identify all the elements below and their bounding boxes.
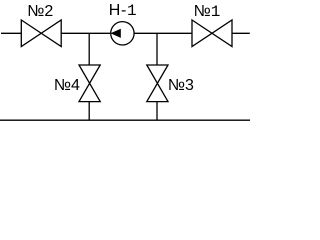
- node A: T-junction, wire: vertical drop from main line to valve №4: [88, 33, 90, 65]
- svg-text:№1: №1: [194, 3, 221, 21]
- node B: T-junction, wire: vertical drop from main line to valve №3: [156, 33, 158, 65]
- valve №4 (gate valve, vertical hourglass symbol): [79, 65, 100, 102]
- wire: top main line between pump H-1 and valve №1: [135, 32, 193, 34]
- wire: right outlet stub of top main line: [232, 32, 250, 34]
- wire: bottom return line (full width): [0, 119, 250, 121]
- valve №1 (gate valve, horizontal bowtie symbol): [192, 20, 232, 47]
- wire: top main line between valve №2 and pump H-1: [61, 32, 110, 34]
- valve №3 (gate valve, vertical hourglass symbol): [147, 65, 168, 102]
- valve №2 (gate valve, horizontal bowtie symbol): [21, 20, 61, 47]
- svg-text:№2: №2: [27, 3, 53, 20]
- pump H-1 flow-direction triangle (filled, pointing left): [111, 29, 121, 38]
- wire: vertical segment from valve №4 to bottom return line: [88, 102, 90, 121]
- wire: left inlet stub of top main line: [1, 32, 21, 34]
- svg-text:№4: №4: [54, 77, 80, 94]
- wire: vertical segment from valve №3 to bottom return line: [156, 102, 158, 121]
- svg-text:Н-1: Н-1: [109, 2, 138, 20]
- pump H-1 (circle body): [111, 22, 134, 45]
- svg-text:№3: №3: [168, 77, 194, 94]
